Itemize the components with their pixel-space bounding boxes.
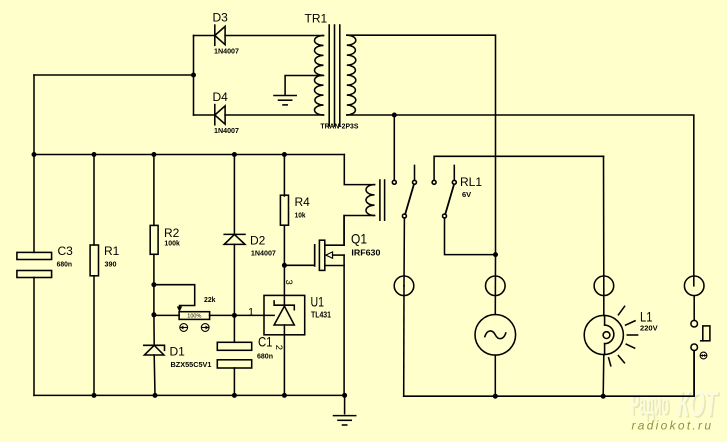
node top bus x34 bbox=[32, 152, 37, 157]
svg-text:Q1: Q1 bbox=[351, 231, 367, 247]
svg-text:D1: D1 bbox=[170, 345, 186, 359]
svg-text:radiokot.ru: radiokot.ru bbox=[632, 419, 712, 433]
wire pot node down to D1 bbox=[153, 315, 155, 346]
bottom bus right bbox=[404, 351, 694, 397]
wire column1 down to bus bbox=[403, 286, 405, 396]
lamp L1 bbox=[584, 306, 637, 366]
relay contact switch 2 (RL1) bbox=[432, 156, 603, 254]
resistor R1 bbox=[90, 155, 98, 396]
wire left node to D3/D4 branch bbox=[34, 74, 194, 76]
wire transformer center tap bbox=[285, 76, 323, 95]
capacitor C3 bbox=[17, 155, 52, 396]
wire R2 node down to pot node bbox=[153, 285, 155, 315]
svg-text:6V: 6V bbox=[462, 190, 471, 199]
wire coil bottom to Q1 drain bbox=[344, 216, 374, 246]
wire secondary top to right column bbox=[347, 35, 496, 254]
wire left vertical x=34 bbox=[33, 75, 35, 155]
probe circle column 4 bbox=[684, 276, 704, 296]
node pot left bbox=[151, 312, 156, 317]
watermark Радио КОТ radiokot.ru bbox=[631, 383, 720, 433]
transistor Q1 IRF630 bbox=[315, 216, 344, 396]
node top bus R2 bbox=[151, 152, 156, 157]
ground (bottom) bbox=[334, 395, 356, 425]
svg-text:680n: 680n bbox=[257, 352, 273, 361]
diode D4 bbox=[194, 105, 324, 125]
button actuator widget bbox=[700, 352, 707, 359]
svg-text:100k: 100k bbox=[164, 238, 180, 247]
svg-text:IRF630: IRF630 bbox=[351, 248, 380, 258]
wire lamp column bbox=[603, 156, 605, 315]
probe circle column 1 bbox=[394, 276, 414, 296]
wire gate bbox=[284, 245, 314, 265]
pot adjust button right bbox=[201, 324, 209, 332]
svg-text:TL431: TL431 bbox=[311, 310, 331, 320]
node R4 bottom / gate / U1 pin3 bbox=[282, 263, 287, 268]
wire lamp to bus bbox=[602, 355, 605, 397]
pot adjust button left bbox=[180, 324, 188, 332]
node pot right / C1 / U1 pin1 bbox=[232, 313, 237, 318]
svg-text:D4: D4 bbox=[213, 90, 229, 104]
svg-text:D2: D2 bbox=[250, 234, 266, 248]
wire main column to AC source bbox=[494, 255, 496, 315]
node top bus D2 bbox=[232, 152, 237, 157]
resistor R4 bbox=[280, 155, 288, 266]
diode D3 bbox=[194, 25, 324, 45]
wire U1 pin3 bbox=[283, 265, 285, 295]
svg-text:1N4007: 1N4007 bbox=[214, 47, 239, 56]
capacitor C1 bbox=[217, 315, 251, 395]
node at branch bbox=[191, 73, 196, 78]
node bus ground bbox=[342, 393, 347, 398]
svg-text:R1: R1 bbox=[104, 244, 120, 258]
node switch2 / main column bbox=[493, 252, 498, 257]
relay coil RL1 bbox=[366, 180, 385, 220]
svg-text:1N4007: 1N4007 bbox=[251, 249, 276, 258]
node bus C1 bbox=[232, 393, 237, 398]
svg-text:D3: D3 bbox=[213, 11, 229, 25]
svg-text:1N4007: 1N4007 bbox=[214, 126, 239, 135]
top bus corner to relay coil bbox=[344, 155, 374, 185]
svg-text:Радио: Радио bbox=[631, 386, 669, 421]
svg-text:R4: R4 bbox=[295, 195, 311, 209]
svg-text:BZX55C5V1: BZX55C5V1 bbox=[171, 360, 212, 369]
svg-text:3: 3 bbox=[283, 280, 294, 285]
wire D3/D4 branch vertical bbox=[193, 36, 195, 116]
node R2 bottom / wiper bbox=[151, 282, 156, 287]
node top bus R1 bbox=[92, 152, 97, 157]
node bus U1 pin2 bbox=[282, 393, 287, 398]
button SW bbox=[691, 296, 710, 397]
top bus bbox=[34, 154, 344, 156]
transformer TR1 bbox=[314, 25, 355, 126]
probe circle column 3 bbox=[594, 276, 614, 296]
node top bus R4 bbox=[282, 152, 287, 157]
svg-text:C3: C3 bbox=[58, 244, 74, 258]
node transformer bottom / switch 1 bbox=[392, 113, 397, 118]
svg-text:TRAN-2P3S: TRAN-2P3S bbox=[320, 122, 358, 131]
node bus R1 bbox=[92, 393, 97, 398]
svg-text:1: 1 bbox=[248, 306, 254, 318]
ground (center tap) bbox=[274, 96, 296, 105]
svg-text:C1: C1 bbox=[258, 334, 273, 350]
svg-text:100%: 100% bbox=[187, 313, 201, 319]
zener diode D1 bbox=[144, 345, 165, 395]
bottom bus left bbox=[34, 394, 345, 396]
svg-text:22k: 22k bbox=[204, 295, 216, 304]
svg-text:L1: L1 bbox=[640, 309, 653, 325]
AC source bbox=[475, 315, 516, 356]
svg-text:U1: U1 bbox=[311, 294, 325, 310]
wire AC to bus bbox=[494, 355, 496, 396]
svg-text:10k: 10k bbox=[295, 211, 307, 220]
diode D2 bbox=[224, 155, 245, 315]
node bus AC bbox=[493, 394, 498, 399]
node bus lamp bbox=[601, 394, 606, 399]
svg-text:390: 390 bbox=[105, 260, 117, 269]
probe circle column 2 bbox=[486, 276, 506, 296]
svg-text:TR1: TR1 bbox=[305, 12, 328, 26]
node bus D1 bbox=[153, 393, 158, 398]
svg-text:2: 2 bbox=[273, 345, 284, 350]
svg-text:RL1: RL1 bbox=[460, 175, 482, 189]
potentiometer RV (22k, 100%) bbox=[154, 285, 235, 320]
op-amp box U1 TL431 bbox=[234, 295, 304, 395]
relay contact switch 1 bbox=[392, 115, 416, 286]
resistor R2 bbox=[150, 155, 158, 285]
svg-text:680n: 680n bbox=[57, 260, 73, 269]
wire secondary bottom long bbox=[347, 115, 694, 286]
svg-text:220V: 220V bbox=[640, 324, 658, 333]
